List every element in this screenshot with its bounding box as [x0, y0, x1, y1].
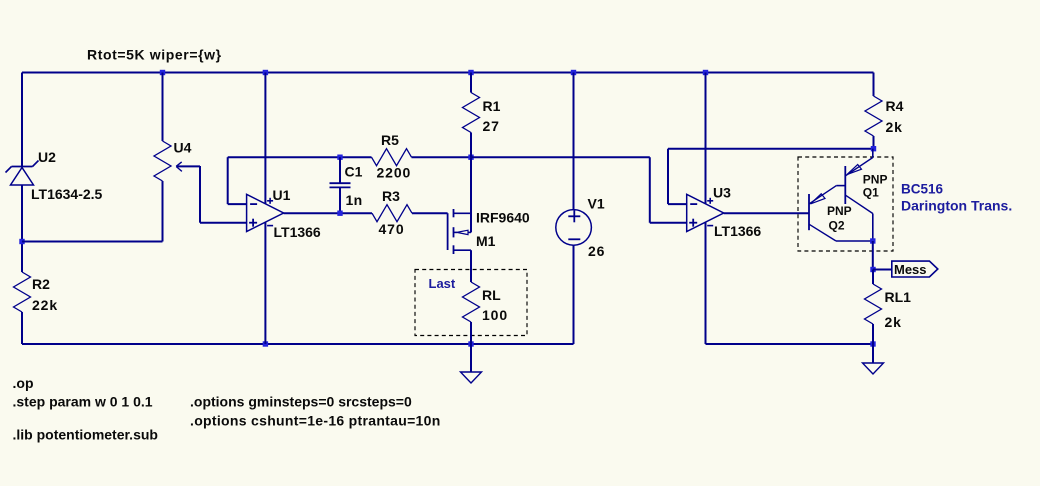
wire U2 anode to junction and R2: [21, 185, 23, 272]
wire U1 output to R3: [284, 212, 372, 214]
wire top supply rail: [22, 72, 874, 74]
node junction U2/R2/U4 wire: [19, 239, 24, 244]
wire U3 -input feedback to R4 node: [668, 203, 687, 205]
svg-text:LT1366: LT1366: [714, 223, 761, 239]
wire U3 V- pin to bottom rail: [705, 222, 707, 344]
wire R5 right to M1 source node: [412, 156, 472, 158]
op-amp U1: [247, 194, 284, 231]
node junction top rail / V1: [571, 70, 576, 75]
capacitor C1: [339, 157, 341, 183]
zener diode U2: [12, 166, 33, 168]
wire U1 V- pin to bottom rail: [264, 222, 266, 344]
V1 plus marker: [568, 215, 580, 217]
potentiometer U4 bottom lead: [162, 181, 164, 242]
net flag Mess: [892, 261, 938, 277]
node junction RL1 bottom / ground: [870, 341, 875, 346]
wire feedback row to R5 and node: [228, 156, 372, 158]
node junction bottom rail / U1 V-: [263, 341, 268, 346]
wire collectors to Mess node: [872, 241, 874, 270]
node junction top rail / R1: [468, 70, 473, 75]
wire U1 -input feedback: [228, 203, 247, 205]
svg-text:R5: R5: [381, 132, 399, 148]
wire R1 bottom to source node: [470, 133, 472, 158]
node junction top rail / U3 V+: [703, 70, 708, 75]
V1 minus marker: [568, 238, 580, 240]
svg-text:100: 100: [482, 307, 508, 323]
node junction R1/R5/M1 source: [468, 155, 473, 160]
dashed box darlington: [798, 157, 893, 251]
svg-text:27: 27: [483, 118, 500, 134]
svg-text:BC516: BC516: [901, 182, 944, 197]
node junction C1 top: [337, 155, 342, 160]
svg-text:2k: 2k: [886, 119, 903, 135]
wire U3 output to Q2 base: [724, 212, 809, 214]
resistor R2 body: [14, 272, 31, 312]
svg-text:.lib potentiometer.sub: .lib potentiometer.sub: [13, 427, 158, 443]
svg-text:R1: R1: [483, 98, 501, 114]
svg-text:.options gminsteps=0 srcsteps=: .options gminsteps=0 srcsteps=0: [190, 394, 412, 410]
wire junction to U4 bottom: [22, 241, 163, 243]
pmos transistor M1: [447, 213, 449, 250]
resistor RL1 body: [865, 284, 882, 324]
svg-text:1n: 1n: [346, 192, 363, 208]
svg-text:R3: R3: [382, 188, 400, 204]
svg-text:PNP: PNP: [863, 173, 888, 187]
svg-text:U1: U1: [273, 187, 291, 203]
resistor R4 bottom lead: [873, 136, 875, 149]
wire left rail from top rail to zener U2: [21, 73, 23, 167]
svg-text:IRF9640: IRF9640: [476, 210, 530, 226]
node junction U1 out / C1 bottom: [337, 211, 342, 216]
svg-text:U3: U3: [713, 185, 731, 201]
voltage source V1 bottom lead: [573, 245, 575, 344]
svg-text:R2: R2: [32, 276, 50, 292]
svg-text:Q1: Q1: [863, 186, 879, 200]
node junction top rail / U4: [160, 70, 165, 75]
svg-text:RL: RL: [482, 287, 501, 303]
wire M1 source to node: [470, 157, 472, 232]
svg-text:LT1366: LT1366: [274, 224, 321, 240]
svg-text:C1: C1: [345, 164, 363, 180]
svg-text:U2: U2: [38, 149, 56, 165]
pnp transistor Q2: [808, 194, 810, 230]
resistor R3 body: [372, 205, 412, 222]
wire bottom right ground rail: [706, 343, 874, 345]
svg-text:V1: V1: [588, 196, 605, 212]
potentiometer U4 wiper arrow: [176, 162, 182, 166]
svg-text:M1: M1: [476, 233, 496, 249]
wire R3 to M1 gate: [412, 212, 448, 214]
wire U4 wiper to U1 +input: [177, 165, 201, 167]
svg-text:Mess: Mess: [894, 262, 927, 277]
svg-text:2k: 2k: [885, 314, 902, 330]
resistor R4 top lead: [873, 73, 875, 97]
svg-text:22k: 22k: [32, 297, 58, 313]
ground symbol right: [872, 344, 874, 363]
wire R2 bottom to ground rail: [21, 312, 23, 344]
svg-text:.step param w 0 1 0.1: .step param w 0 1 0.1: [13, 394, 153, 410]
voltage source V1 top lead: [573, 73, 575, 210]
resistor R1 top lead: [470, 73, 472, 93]
resistor RL1 bottom lead: [872, 324, 874, 344]
svg-text:Q2: Q2: [829, 219, 845, 233]
svg-text:26: 26: [588, 243, 605, 259]
svg-text:.options cshunt=1e-16 ptrantau: .options cshunt=1e-16 ptrantau=10n: [190, 413, 441, 429]
svg-text:Darington Trans.: Darington Trans.: [901, 198, 1012, 214]
wire RL bottom to ground rail: [470, 322, 472, 344]
wire bottom left ground rail: [22, 343, 574, 345]
potentiometer U4 top lead: [162, 73, 164, 142]
svg-text:470: 470: [379, 221, 405, 237]
node junction Mess: [870, 267, 875, 272]
node junction bottom rail / RL / ground: [468, 341, 473, 346]
svg-text:RL1: RL1: [885, 289, 912, 305]
dashed box Last load: [415, 270, 527, 336]
node junction R4 / feedback / Q1 emitter: [871, 146, 876, 151]
op-amp U3: [687, 194, 724, 231]
pnp transistor Q1: [844, 166, 846, 204]
wire source node to U3 +input: [471, 156, 650, 158]
node junction top rail / U1 V+: [263, 70, 268, 75]
resistor R5 body: [372, 149, 412, 166]
svg-text:.op: .op: [13, 375, 34, 391]
node junction Q1/Q2 collectors: [870, 238, 875, 243]
resistor RL body: [463, 282, 480, 322]
ground symbol left: [470, 344, 472, 372]
svg-text:LT1634-2.5: LT1634-2.5: [31, 186, 103, 202]
potentiometer U4 body: [154, 141, 171, 181]
resistor R1 body: [463, 93, 480, 133]
svg-text:U4: U4: [174, 140, 192, 156]
resistor R4 body: [865, 96, 882, 136]
svg-text:R4: R4: [886, 98, 904, 114]
resistor RL1 top lead: [872, 270, 874, 285]
wire M1 drain to RL: [470, 250, 472, 282]
wire U3 V+ pin to top rail: [705, 73, 707, 204]
svg-text:Rtot=5K wiper={w}: Rtot=5K wiper={w}: [87, 47, 222, 63]
wire U1 V+ pin to top rail: [264, 73, 266, 204]
voltage source V1 circle: [556, 210, 592, 246]
svg-text:PNP: PNP: [827, 204, 852, 218]
svg-text:2200: 2200: [377, 165, 412, 181]
svg-text:Last: Last: [429, 276, 456, 291]
wire Mess node to flag: [873, 269, 892, 271]
